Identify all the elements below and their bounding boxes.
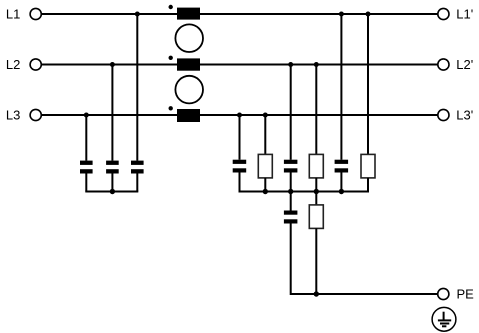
node L3 / CY1 tap [237, 113, 242, 118]
svg-text:L3': L3' [456, 108, 473, 123]
wire Y common bus [239, 191, 370, 193]
node L1 / X-cap tap junction [135, 12, 140, 17]
node L2 / R2 tap [314, 62, 319, 67]
capacitor CX3 (L1 to star point) [131, 161, 144, 174]
inductor winding L3 [177, 109, 200, 122]
wire CX2 to star bus [111, 174, 113, 192]
terminal L3 [30, 109, 41, 120]
wire L1 to capacitor CY3 [340, 14, 342, 160]
capacitor CY1 (L3 branch) [233, 160, 247, 173]
wire L1 to resistor R3 [367, 14, 369, 154]
wire CY4 to PE rail [291, 224, 317, 295]
node L3 / X-cap tap junction [84, 113, 89, 118]
resistor R4 (bus to PE) [309, 205, 323, 229]
choke core circle (between L2 and L3) [175, 76, 203, 104]
node L2 / X-cap tap junction [110, 62, 115, 67]
svg-text:L1: L1 [6, 7, 20, 22]
node L1 / R3 tap [366, 12, 371, 17]
wire R1 to Y bus [264, 178, 266, 192]
wire Y bus to capacitor CY4 [290, 192, 292, 211]
wire PE rail [316, 293, 437, 295]
wire L3 line [42, 114, 438, 116]
wire L3 to resistor R1 [264, 115, 266, 154]
node Y bus / R2 junction [314, 189, 319, 194]
terminal L2' [438, 59, 449, 70]
wire CX1 to star bus [85, 174, 87, 192]
wire L1 to capacitor CX3 [136, 14, 138, 161]
node Y bus / R1 junction [263, 189, 268, 194]
wire L2 line [42, 64, 438, 66]
terminal L1 [30, 8, 41, 19]
wire L3 to capacitor CX1 [85, 115, 87, 161]
terminal L1' [438, 8, 449, 19]
terminal L3' [438, 109, 449, 120]
wire R4 to PE rail [315, 228, 317, 294]
wire L1 line [42, 13, 438, 15]
node L1 / CY3 tap [339, 12, 344, 17]
inductor winding L1 [177, 8, 200, 20]
capacitor CY2 (L2 branch) [284, 160, 298, 173]
svg-text:L2': L2' [456, 57, 473, 72]
wire Y bus to resistor R4 [315, 192, 317, 205]
resistor R3 (L1 branch) [361, 154, 375, 178]
wire CY2 to Y bus [290, 173, 292, 192]
wire L2 to capacitor CY2 [290, 65, 292, 160]
inductor winding L2 [177, 58, 200, 70]
svg-text:PE: PE [457, 287, 475, 302]
polarity dot L1 winding [169, 5, 173, 9]
svg-text:L1': L1' [456, 7, 473, 22]
node Y bus / CY3 junction [339, 189, 344, 194]
node L2 / CY2 tap [288, 62, 293, 67]
resistor R2 (L2 branch) [309, 154, 323, 178]
polarity dot L3 winding [169, 106, 173, 110]
wire R3 to Y bus [367, 178, 369, 192]
wire CX3 to star bus [136, 174, 138, 192]
wire L2 to capacitor CX2 [111, 65, 113, 161]
wire X-cap star bus [85, 191, 138, 193]
ground (protective earth symbol) [432, 307, 456, 331]
wire CY3 to Y bus [340, 173, 342, 192]
capacitor CY3 (L1 branch) [335, 160, 349, 173]
wire L2 to resistor R2 [315, 65, 317, 155]
terminal PE [438, 288, 449, 299]
wire R2 to Y bus [315, 178, 317, 192]
node Y bus / CY2 junction [288, 189, 293, 194]
capacitor CX1 (L3 to star point) [80, 161, 93, 174]
choke core circle (between L1 and L2) [175, 24, 203, 52]
node L3 / R1 tap [263, 113, 268, 118]
wire CY1 to Y bus [239, 173, 241, 192]
capacitor CY4 (bus to PE) [284, 211, 298, 224]
node PE rail junction [314, 291, 319, 296]
polarity dot L2 winding [169, 56, 173, 60]
capacitor CX2 (L2 to star point) [106, 161, 119, 174]
svg-text:L2: L2 [6, 57, 20, 72]
wire L3 to capacitor CY1 [239, 115, 241, 160]
svg-text:L3: L3 [6, 108, 20, 123]
node X-cap star point [110, 189, 115, 194]
terminal L2 [30, 59, 41, 70]
resistor R1 (L3 branch) [258, 154, 272, 178]
